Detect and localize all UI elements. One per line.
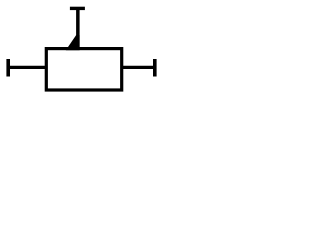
- wire (right lead): [122, 66, 155, 69]
- preset adjust T-bar: [70, 7, 85, 10]
- wire (left lead): [8, 66, 46, 69]
- resistor body (trimmer preset box): [46, 49, 121, 90]
- wiper contact triangle: [66, 35, 80, 50]
- terminal tick (right): [153, 59, 157, 77]
- wire (top adjustment stem): [76, 8, 80, 48]
- terminal tick (left): [6, 59, 10, 77]
